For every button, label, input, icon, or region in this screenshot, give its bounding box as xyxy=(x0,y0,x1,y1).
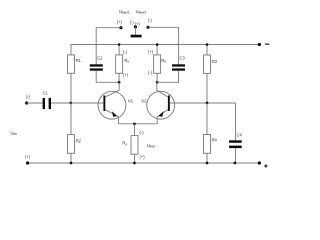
node R4 bottom junction xyxy=(206,162,209,165)
svg-text:R3: R3 xyxy=(212,59,218,64)
resistor Rн right xyxy=(148,43,166,82)
svg-text:Uвх2: Uвх2 xyxy=(147,143,155,148)
transistor V2 xyxy=(147,82,175,123)
svg-text:Uвых1: Uвых1 xyxy=(119,9,130,14)
wire C2 bottom to collector node V1 xyxy=(96,71,119,83)
node rail terminal plus xyxy=(258,161,261,164)
svg-text:C2: C2 xyxy=(97,55,103,60)
node collector V2 xyxy=(156,81,159,84)
svg-text:(+): (+) xyxy=(140,154,146,159)
capacitor C1 xyxy=(43,91,51,110)
svg-text:(-): (-) xyxy=(148,70,153,75)
svg-text:(+): (+) xyxy=(148,50,154,55)
node base V2 junction xyxy=(206,102,209,105)
node input plus terminal xyxy=(25,155,31,165)
node R2 bottom junction xyxy=(70,162,73,165)
node input minus terminal xyxy=(25,94,30,105)
resistor R1 xyxy=(68,55,82,73)
svg-text:V1: V1 xyxy=(128,99,134,104)
node C4 bottom junction xyxy=(234,162,237,165)
svg-text:(+): (+) xyxy=(117,20,123,25)
label minus supply xyxy=(265,44,269,45)
label Uвых1 xyxy=(119,9,130,14)
wire output2 to C3 top xyxy=(148,27,179,64)
label plus supply xyxy=(264,164,267,167)
wire Rэ to bottom rail xyxy=(134,154,136,163)
wire emitter junction xyxy=(118,123,157,125)
svg-text:(-): (-) xyxy=(26,94,31,99)
resistor R3 xyxy=(204,43,218,73)
node Rэ bottom junction xyxy=(133,162,136,165)
node base V1 junction xyxy=(70,102,73,105)
resistor Rэ xyxy=(122,136,138,155)
wire C1 to base node V1 xyxy=(51,102,71,104)
svg-text:Rн: Rн xyxy=(124,58,129,64)
resistor Rн left xyxy=(116,43,130,82)
svg-text:V2: V2 xyxy=(141,99,147,104)
node ground minus terminal xyxy=(130,20,141,29)
wire R3 to base node V2 xyxy=(206,73,208,103)
svg-text:(-): (-) xyxy=(123,49,128,54)
svg-text:R1: R1 xyxy=(76,58,82,63)
wire emitter node to Rэ xyxy=(134,124,136,136)
node output1 plus terminal xyxy=(117,20,123,30)
svg-text:(-): (-) xyxy=(148,18,153,23)
label Uвых2 xyxy=(136,9,147,14)
resistor R2 xyxy=(68,135,82,154)
wire base node to V1 xyxy=(71,102,104,104)
wire base V2 to R3 R4 node and C4 xyxy=(170,102,236,104)
label Uвх2 input2 terminals xyxy=(140,130,156,159)
svg-text:Rн: Rн xyxy=(161,58,166,64)
node rail terminal minus xyxy=(258,43,261,46)
node collector V1 xyxy=(118,81,121,84)
ground xyxy=(131,27,142,38)
wire output1 to C2 top xyxy=(96,28,121,65)
svg-text:R2: R2 xyxy=(76,138,82,143)
wire C3 bottom to collector node V2 xyxy=(157,71,178,83)
label Uвх xyxy=(11,130,18,135)
svg-text:(-): (-) xyxy=(140,130,145,135)
wire top supply rail xyxy=(71,45,259,55)
wire R2 to bottom rail xyxy=(70,153,72,163)
svg-text:C3: C3 xyxy=(179,55,185,60)
svg-text:C1: C1 xyxy=(43,91,49,96)
wire bottom rail xyxy=(28,162,260,164)
wire base node to R2 xyxy=(70,103,72,135)
svg-text:(+): (+) xyxy=(123,72,129,77)
node emitter junction xyxy=(133,122,136,125)
svg-text:C4: C4 xyxy=(237,132,243,137)
svg-text:R4: R4 xyxy=(212,138,218,143)
wire R1 to base node xyxy=(70,73,72,103)
svg-text:Rэ: Rэ xyxy=(122,140,127,146)
resistor R4 xyxy=(204,103,218,163)
svg-text:Uвх: Uвх xyxy=(11,130,18,135)
transistor V1 xyxy=(98,82,126,123)
capacitor C2 xyxy=(90,55,103,70)
capacitor C3 xyxy=(172,55,185,70)
svg-text:(+): (+) xyxy=(25,155,31,160)
wire input to C1 xyxy=(27,102,43,104)
capacitor C4 xyxy=(229,103,242,163)
node output2 minus terminal xyxy=(147,18,153,29)
svg-text:Uвых2: Uвых2 xyxy=(136,9,147,14)
